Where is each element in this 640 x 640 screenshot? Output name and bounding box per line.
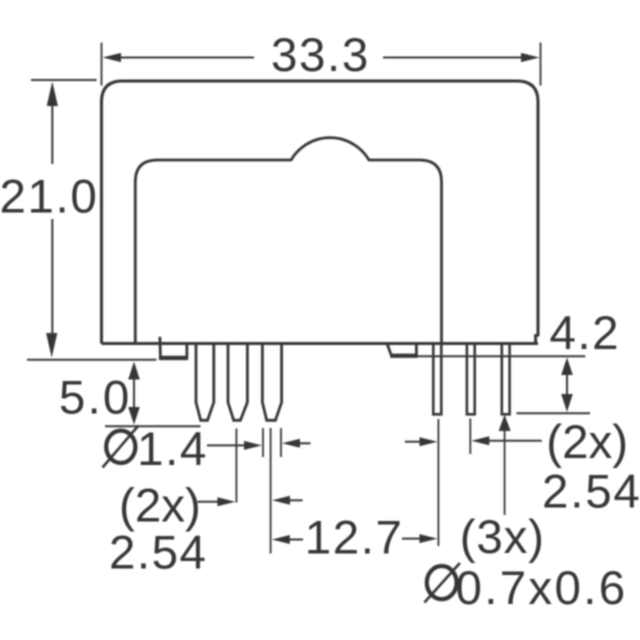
arrowhead 33.3 left <box>103 53 122 62</box>
pin3 left dia line <box>262 428 264 457</box>
dia 1.4 right arrow shaft <box>299 442 311 444</box>
pin3 right dia line <box>280 428 282 457</box>
dim 21.0 top extension line <box>31 79 97 81</box>
diameter symbol for 1.4 <box>103 426 139 468</box>
outer body outline <box>102 81 539 344</box>
arrowhead left2.54 right-point <box>217 497 235 506</box>
thick pin 2 <box>228 344 247 421</box>
right 2.54 right-arrow shaft <box>405 441 420 443</box>
svg-text:21.0: 21.0 <box>0 170 98 223</box>
svg-text:12.7: 12.7 <box>305 512 404 565</box>
12.7 / 2.54 shared extension line <box>437 419 439 546</box>
12.7 right arrow shaft <box>402 538 420 540</box>
dim 4.2 shaft <box>566 373 568 395</box>
thin pin C <box>502 344 510 414</box>
svg-text:(2x): (2x) <box>119 480 201 533</box>
thin pin B <box>467 344 475 414</box>
diameter symbol for 0.7x0.6 <box>424 563 460 603</box>
arrowhead 33.3 right <box>521 53 540 62</box>
arrowhead 12.7 right-point <box>419 534 437 543</box>
arrowhead leader up <box>499 415 511 431</box>
4.2 top extension line <box>418 355 586 357</box>
svg-text:4.2: 4.2 <box>550 307 621 360</box>
pin3 center extension line <box>270 428 272 554</box>
left 2.54 left-arrow shaft <box>290 499 303 501</box>
svg-text:2.54: 2.54 <box>542 465 640 518</box>
dim 21.0 shaft upper <box>51 105 53 164</box>
arrowhead 5.0 down <box>128 407 140 425</box>
5.0 bottom extension line <box>105 425 201 427</box>
svg-text:1.4: 1.4 <box>137 423 208 476</box>
svg-text:5.0: 5.0 <box>59 372 132 425</box>
arrowhead left2.54 left-point <box>272 496 290 505</box>
right 2.54 left-arrow shaft <box>489 440 542 442</box>
dim 33.3 line left <box>120 57 254 59</box>
svg-text:(3x): (3x) <box>460 511 545 564</box>
inner body outline <box>135 138 441 344</box>
arrowhead dia1.4 right-point <box>244 441 262 450</box>
svg-text:2.54: 2.54 <box>109 526 207 579</box>
12.7 left arrow shaft <box>290 539 304 541</box>
left mounting foot <box>160 337 187 357</box>
left 2.54 right-arrow shaft <box>198 501 219 503</box>
svg-text:0.7x0.6: 0.7x0.6 <box>456 562 628 615</box>
body bottom edge <box>102 342 539 345</box>
arrowhead right2.54 left-point <box>471 436 489 445</box>
dia 1.4 left arrow shaft <box>207 444 245 446</box>
dim 33.3 left tick <box>101 43 103 86</box>
dim 5.0 shaft <box>133 377 135 412</box>
arrowhead dia1.4 left-point <box>282 439 300 448</box>
4.2 bottom extension line <box>517 412 591 414</box>
dim 21.0 shaft lower <box>51 219 53 335</box>
arrowhead 21.0 up <box>47 82 58 107</box>
svg-text:33.3: 33.3 <box>271 29 370 82</box>
arrowhead 12.7 left-point <box>272 535 290 544</box>
dim 33.3 line right <box>383 57 523 59</box>
arrowhead 21.0 down <box>46 333 57 358</box>
arrowhead 4.2 down <box>561 394 573 412</box>
arrowhead 5.0 up <box>128 362 140 380</box>
pinC leader line <box>504 417 506 515</box>
right mounting foot <box>387 344 416 356</box>
arrowhead 4.2 up <box>561 357 573 375</box>
seating plane line (21.0 bottom / 5.0 top ref) <box>27 359 157 361</box>
pin2 center extension line <box>235 429 237 503</box>
pinB center extension line <box>469 419 471 455</box>
svg-text:(2x): (2x) <box>546 416 628 469</box>
arrowhead right2.54 right-point <box>420 437 438 446</box>
thin pin A <box>433 344 441 414</box>
dim 33.3 right tick <box>540 43 542 86</box>
thick pin 1 <box>196 344 214 421</box>
thick pin 3 <box>262 344 281 421</box>
